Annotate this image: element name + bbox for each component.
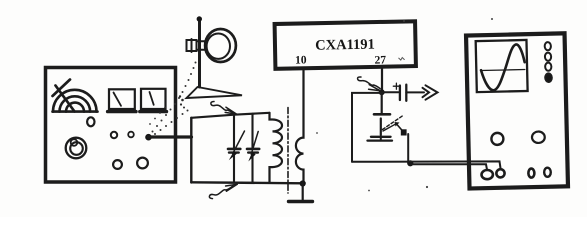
transformer T1 primary winding L1 [270,113,283,183]
tuned circuit top rail [191,113,269,118]
signal generator G1 enclosure [46,68,176,183]
ground lead [302,184,304,201]
dial needle cross stroke [53,80,71,97]
detector diode lead from node [381,92,383,112]
junction square [401,129,407,135]
mast top ball [197,16,202,21]
scan specks near mast base [179,95,185,108]
mast clamp [187,39,207,52]
junction node at L2 bottom [300,180,306,186]
detector chassis bar [368,139,393,141]
antenna mast [198,21,201,87]
knob column ovals [545,42,551,50]
antenna stand base wedge [187,87,243,98]
output terminal dot [145,134,152,141]
output probe arrow [423,88,430,97]
input terminal 2 [496,169,504,177]
tuned circuit left wire [190,118,192,183]
tuned circuit bottom rail [191,182,302,183]
detector rotor bar [380,119,382,136]
panel knob C [113,160,122,169]
return wire to oscilloscope [410,164,487,169]
small knob under dial [87,117,94,126]
svg-text:27: 27 [374,54,386,66]
detector dashed adjust diagonal [383,116,404,130]
dial pointer needle [56,86,75,112]
small mark [399,58,405,61]
panel knob A [111,132,117,138]
detector bottom plate [371,136,391,138]
front knob 2 [532,131,545,143]
node at pin 27 circuit [379,89,385,95]
wire capacitor to output arrow [406,91,424,93]
variable capacitor C1 [228,115,240,183]
polarity plus sign [393,83,399,89]
panel knob D [137,158,148,169]
oscilloscope [466,33,568,188]
panel meter P1 [109,89,135,109]
adjust pointer arrow at C1 bottom [209,184,237,198]
svg-text:CXA1191: CXA1191 [315,37,375,54]
front knob 1 [491,133,503,145]
oscilloscope enclosure [466,33,568,188]
IC CXA1191 [275,21,416,68]
junction dot at bottom rail [407,160,413,166]
wire generator output to tuned circuit [149,135,192,138]
adjust pointer arrow at C1 top [211,102,237,115]
detector arrow diagonal [383,124,396,131]
svg-text:10: 10 [295,54,307,66]
C2 adjust arrow [251,132,258,155]
aux terminal 2 [544,168,551,177]
C1 adjust arrow [233,131,245,154]
dotted coupling rays to loop antenna [149,62,196,136]
pin 27 lead wire [381,67,383,92]
adjust pointer arrow at pin 27 node [358,77,381,91]
ground symbol [289,200,313,203]
main tuning knob [66,138,87,159]
wire node left and down [352,93,382,162]
transformer T1 secondary winding L2 [296,68,304,183]
sine trace [480,44,525,90]
signal wire to oscilloscope [352,161,501,168]
detector top plate [374,113,390,116]
scan specks [316,18,493,191]
screen baseline [481,69,525,72]
coupling capacitor C3 [399,86,401,101]
wire junction square down [407,134,409,163]
aux terminal 1 [528,169,534,178]
generator tuning dial scale [53,90,98,112]
input terminal 1 [481,170,493,179]
variable capacitor C2 [247,114,259,183]
panel knob B [128,132,134,138]
panel meter P2 [141,89,166,109]
CRT screen [476,40,528,92]
wire node to coupling capacitor [382,91,399,93]
loop antenna ring [205,29,236,62]
transformer T1 core [287,108,289,194]
